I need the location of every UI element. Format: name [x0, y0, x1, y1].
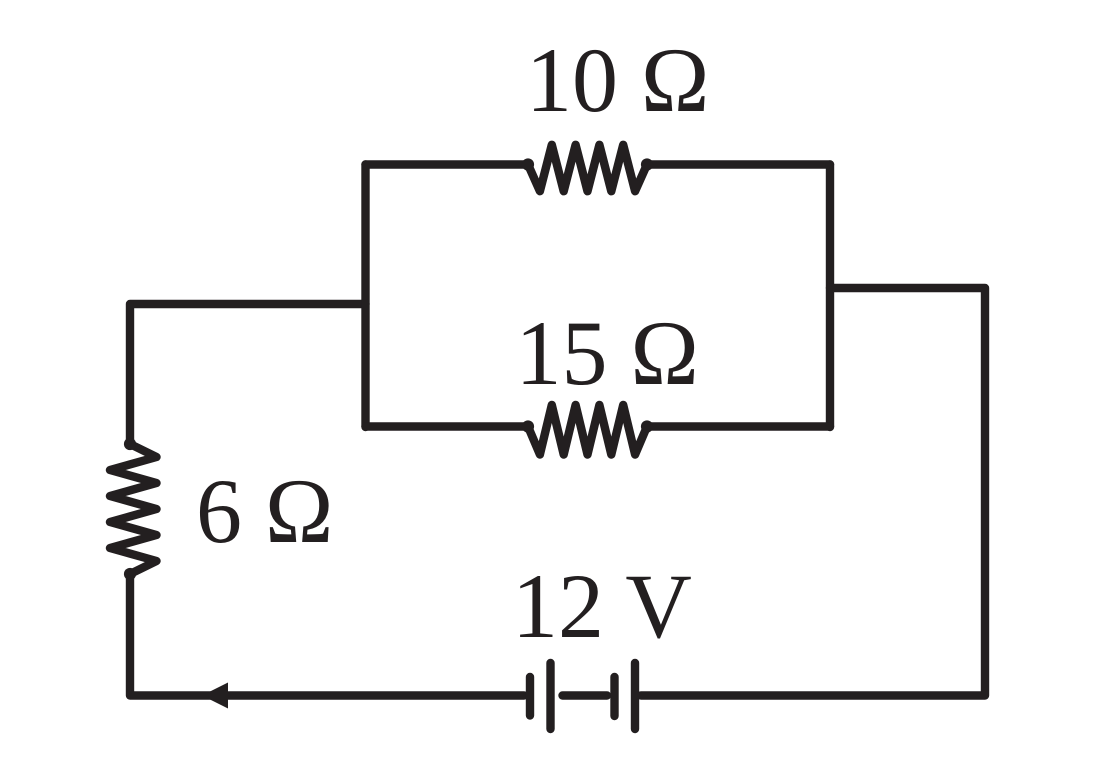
wire: right branch, right vertical, bottom-right wire — [641, 288, 985, 696]
node: R2 right terminal — [641, 420, 653, 432]
battery B1 short plate 1 — [526, 677, 534, 716]
svg-text:15 Ω: 15 Ω — [516, 302, 699, 404]
wire: middle wire with resistor R2 15ohm — [366, 405, 831, 455]
wire: left branch, left vertical with resistor R3, bottom-left wire — [110, 304, 524, 696]
node: R3 bottom terminal — [124, 568, 136, 580]
wire: battery middle link — [563, 691, 608, 699]
wire: top of parallel box with resistor R1 10ohm — [366, 145, 831, 191]
battery B1 tall plate 4 — [631, 663, 639, 729]
battery B1 tall plate 2 — [546, 663, 554, 729]
svg-text:12 V: 12 V — [512, 555, 692, 657]
node: R2 left terminal — [522, 420, 534, 432]
svg-text:10 Ω: 10 Ω — [526, 29, 709, 131]
wire: parallel box right vertical — [826, 165, 834, 428]
svg-text:6 Ω: 6 Ω — [196, 460, 333, 562]
wire: parallel box left vertical — [361, 165, 369, 428]
node: R1 left terminal — [522, 158, 534, 170]
node: R1 right terminal — [641, 158, 653, 170]
current arrow on bottom wire — [202, 683, 228, 709]
resistor R3 6ohm (in path) — [110, 304, 524, 696]
node: R3 top terminal — [124, 438, 136, 450]
battery B1 short plate 3 — [610, 677, 618, 716]
